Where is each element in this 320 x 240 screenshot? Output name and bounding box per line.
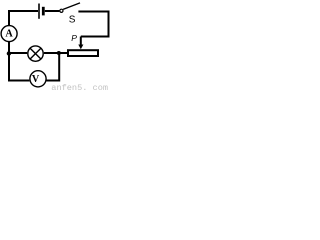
- svg-text:P: P: [71, 33, 77, 43]
- svg-text:anfen5. com: anfen5. com: [51, 83, 108, 93]
- svg-text:A: A: [5, 29, 13, 40]
- svg-text:V: V: [32, 74, 40, 85]
- svg-text:S: S: [69, 15, 76, 26]
